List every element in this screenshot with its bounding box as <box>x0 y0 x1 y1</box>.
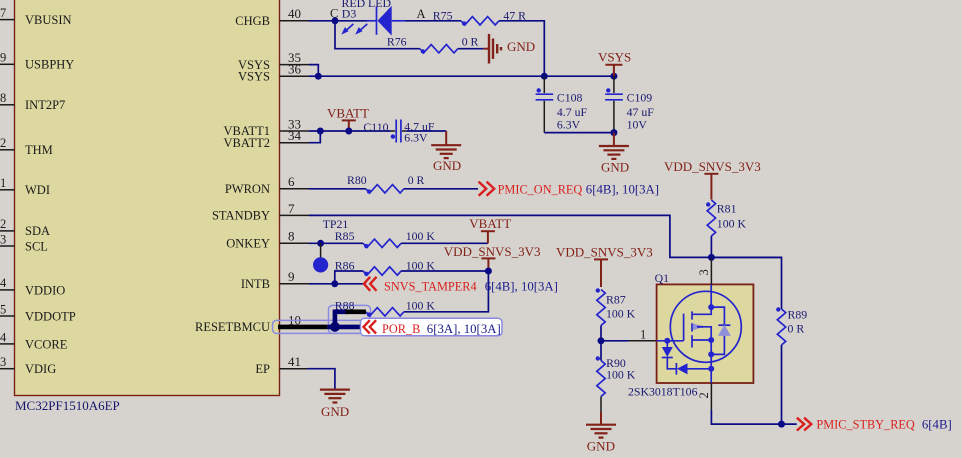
port PMIC_STBY_REQ <box>797 418 952 432</box>
capacitor C108 4.7uF 6.3V <box>536 76 588 132</box>
resistor R86 100K <box>335 258 436 276</box>
svg-text:4: 4 <box>0 331 7 345</box>
svg-text:6.3V: 6.3V <box>557 117 581 131</box>
svg-text:9: 9 <box>288 269 295 284</box>
svg-text:3: 3 <box>697 269 711 275</box>
svg-text:VCORE: VCORE <box>25 338 68 352</box>
svg-text:100 K: 100 K <box>606 368 636 382</box>
Q1 MOSFET symbol <box>657 284 742 382</box>
wire LED anode to R75 <box>405 20 461 22</box>
resistor R90 100K (vertical) <box>596 356 636 396</box>
wire junction to R89 <box>711 257 781 309</box>
port PMIC_ON_REQ <box>479 182 659 197</box>
left pins of IC <box>0 20 15 369</box>
junction C108 top <box>541 73 548 80</box>
junction INTB <box>331 280 338 287</box>
svg-text:4: 4 <box>0 276 7 290</box>
svg-text:VDDIO: VDDIO <box>25 284 65 298</box>
svg-text:R87: R87 <box>606 292 626 306</box>
power port VBATT <box>327 106 369 132</box>
svg-text:PWRON: PWRON <box>225 182 270 196</box>
svg-text:R85: R85 <box>335 229 355 243</box>
wire ONKEY to R85 <box>309 242 363 244</box>
svg-text:7: 7 <box>288 201 295 216</box>
svg-text:GND: GND <box>321 404 349 419</box>
svg-text:MC32PF1510A6EP: MC32PF1510A6EP <box>15 398 120 413</box>
big junction RESETBMCU <box>330 322 340 332</box>
capacitor C110 4.7uF 6.3V <box>363 119 435 144</box>
port SNVS_TAMPER4 <box>364 277 558 294</box>
pin 1 of Q1 <box>629 340 657 342</box>
svg-text:INT2P7: INT2P7 <box>25 98 65 112</box>
resistor R76 0R <box>387 34 479 53</box>
junction VBATT stem <box>345 128 352 135</box>
wire R75 to VSYS rail <box>499 21 544 76</box>
pin 2 of Q1 <box>710 383 712 410</box>
svg-text:INTB: INTB <box>241 277 270 291</box>
test point TP21 <box>313 217 348 273</box>
svg-text:POR_B: POR_B <box>382 322 420 336</box>
svg-text:VDD_SNVS_3V3: VDD_SNVS_3V3 <box>556 245 653 260</box>
wire R80 to port <box>404 188 478 190</box>
IC MC32PF1510A6EP <box>15 0 280 413</box>
resistor R88 100K <box>335 298 436 317</box>
svg-text:2: 2 <box>0 217 6 231</box>
svg-text:RED LED: RED LED <box>342 0 392 10</box>
thick pin 10 (highlighted) <box>278 325 327 330</box>
svg-text:A: A <box>417 7 426 21</box>
port POR_B (highlighted) <box>361 318 503 336</box>
junction gate/R87/R90 <box>598 337 605 344</box>
svg-text:9: 9 <box>0 51 6 65</box>
resistor R80 0R <box>347 173 425 194</box>
svg-text:VBATT2: VBATT2 <box>223 136 270 150</box>
Q1 connection dots <box>664 304 714 372</box>
svg-text:41: 41 <box>288 354 301 369</box>
wire Q1 source to port row <box>711 410 796 424</box>
power port VDD_SNVS_3V3 (left) <box>444 244 541 271</box>
svg-text:6: 6 <box>288 174 295 189</box>
svg-text:VBATT: VBATT <box>327 106 369 121</box>
svg-text:1: 1 <box>640 328 646 342</box>
svg-text:PMIC_STBY_REQ: PMIC_STBY_REQ <box>816 418 915 432</box>
resistor R81 100K (vertical) <box>706 200 746 236</box>
svg-text:6.3V: 6.3V <box>404 131 428 145</box>
left pin numbers (cut off at edge) <box>0 6 7 369</box>
svg-text:VBUSIN: VBUSIN <box>25 13 72 27</box>
svg-text:3: 3 <box>0 233 6 247</box>
power port VBATT at R85 <box>469 216 511 243</box>
ground at EP <box>320 390 350 403</box>
svg-text:0 R: 0 R <box>788 322 805 336</box>
wire CHGB to LED node <box>309 20 368 22</box>
svg-text:SCL: SCL <box>25 240 48 254</box>
wire INTB up branch to R86 <box>335 271 363 284</box>
resistor R89 0R (vertical) <box>776 307 807 345</box>
power port VSYS <box>598 50 631 77</box>
resistor R85 100K <box>335 229 436 248</box>
svg-text:SNVS_TAMPER4: SNVS_TAMPER4 <box>384 279 477 293</box>
svg-text:C: C <box>330 7 338 21</box>
junction C109/VSYS top <box>610 73 617 80</box>
svg-text:100 K: 100 K <box>406 229 436 243</box>
svg-text:VDDOTP: VDDOTP <box>25 310 76 324</box>
wire INTB to port <box>309 283 366 285</box>
svg-text:VBATT: VBATT <box>469 216 511 231</box>
ground at VSYS caps <box>599 133 629 159</box>
node C junction <box>332 17 339 24</box>
svg-text:CHGB: CHGB <box>235 14 270 28</box>
svg-text:R76: R76 <box>387 34 407 48</box>
wire node C down to R76 row <box>335 21 420 49</box>
resistor R87 100K (vertical) <box>596 288 636 325</box>
capacitor C109 47uF 10V <box>605 76 654 132</box>
svg-text:VDD_SNVS_3V3: VDD_SNVS_3V3 <box>664 159 761 174</box>
wire R76 to ground <box>458 48 484 50</box>
wire R89 bottom to port row <box>781 345 783 424</box>
right pin numbers <box>288 6 302 369</box>
wire STANDBY long route <box>309 215 782 257</box>
wire R90 top lead <box>600 341 602 361</box>
svg-text:10V: 10V <box>627 117 648 131</box>
wire EP to ground <box>307 369 335 390</box>
wire VDD junction down to R88 row <box>404 271 489 312</box>
ground at C110 <box>431 131 461 158</box>
junction pin33/34 <box>317 128 324 135</box>
wire C108 bottom to C109 bottom <box>544 132 614 134</box>
svg-text:EP: EP <box>255 362 270 376</box>
wire R81 to junction <box>710 236 712 257</box>
svg-text:PMIC_ON_REQ: PMIC_ON_REQ <box>498 182 583 196</box>
svg-text:GND: GND <box>507 39 535 54</box>
svg-text:GND: GND <box>433 158 461 173</box>
svg-text:SDA: SDA <box>25 224 50 238</box>
wire R90 bottom to ground <box>600 397 602 413</box>
svg-text:Q1: Q1 <box>655 271 670 285</box>
wire R87 bottom to gate junction <box>601 326 629 341</box>
svg-text:R89: R89 <box>788 308 808 322</box>
svg-text:100 K: 100 K <box>717 216 747 230</box>
svg-text:R86: R86 <box>335 258 355 272</box>
svg-text:R80: R80 <box>347 173 367 187</box>
svg-text:100 K: 100 K <box>606 306 636 320</box>
highlight halo for POR_B net <box>273 305 371 333</box>
svg-text:6[4B], 10[3A]: 6[4B], 10[3A] <box>586 182 659 196</box>
svg-text:R81: R81 <box>717 202 737 216</box>
svg-text:2SK3018T106: 2SK3018T106 <box>628 385 698 399</box>
svg-text:6[4B]: 6[4B] <box>922 418 952 432</box>
power port VDD_SNVS_3V3 (top right) <box>664 159 761 200</box>
svg-text:USBPHY: USBPHY <box>25 58 74 72</box>
svg-text:5: 5 <box>0 303 6 317</box>
wire PWRON to R80 <box>309 188 366 190</box>
resistor R75 47R <box>433 8 526 26</box>
transistor Q1 body <box>655 271 754 383</box>
diode D3 RED LED <box>341 0 405 36</box>
thick wire RESETBMCU node <box>327 312 361 327</box>
wire R85 to VBATT <box>401 242 488 244</box>
svg-text:3: 3 <box>0 355 6 369</box>
svg-text:VSYS: VSYS <box>598 50 631 65</box>
svg-text:C108: C108 <box>557 91 583 105</box>
svg-text:0 R: 0 R <box>408 173 425 187</box>
junction R86/VDD <box>485 268 492 275</box>
left pin names <box>25 13 76 376</box>
pin 3 of Q1 <box>710 258 712 284</box>
wire C110 to gnd drop <box>407 130 447 132</box>
power ground (rotated) at R76 <box>483 34 501 64</box>
svg-text:C110: C110 <box>363 120 388 134</box>
svg-text:STANDBY: STANDBY <box>212 209 270 223</box>
svg-text:100 K: 100 K <box>406 298 436 312</box>
svg-text:8: 8 <box>288 229 295 244</box>
wire R86 to VDD_SNVS junction <box>401 270 488 272</box>
svg-text:8: 8 <box>0 91 6 105</box>
junction R81/Q1/STANDBY <box>708 254 715 261</box>
svg-text:2: 2 <box>0 136 6 150</box>
svg-text:6[3A], 10[3A]: 6[3A], 10[3A] <box>427 322 501 336</box>
junction R89/port row <box>778 421 785 428</box>
svg-text:RESETBMCU: RESETBMCU <box>195 320 270 334</box>
junction TP21 <box>317 240 324 247</box>
svg-text:1: 1 <box>0 176 6 190</box>
right pin stubs <box>280 21 310 369</box>
svg-text:VDD_SNVS_3V3: VDD_SNVS_3V3 <box>444 244 541 259</box>
svg-text:40: 40 <box>288 6 301 21</box>
svg-text:GND: GND <box>587 439 615 454</box>
svg-text:6[4B], 10[3A]: 6[4B], 10[3A] <box>485 279 558 293</box>
svg-text:2: 2 <box>697 392 711 398</box>
junction C109 bottom <box>610 129 617 136</box>
svg-text:VSYS: VSYS <box>238 70 270 84</box>
VBATT1/2 net wires (pins 33/34) <box>309 130 391 132</box>
svg-text:VDIG: VDIG <box>25 362 56 376</box>
power port VDD_SNVS_3V3 (at R87) <box>556 245 653 288</box>
svg-text:WDI: WDI <box>25 183 50 197</box>
junction pin35/36 <box>315 73 322 80</box>
right pin names <box>195 14 270 376</box>
svg-text:0 R: 0 R <box>462 34 479 48</box>
svg-text:THM: THM <box>25 143 53 157</box>
svg-text:ONKEY: ONKEY <box>226 237 270 251</box>
ground at R90 <box>586 412 616 438</box>
VSYS net wires (pins 35/36) <box>309 65 614 77</box>
svg-text:C109: C109 <box>627 91 653 105</box>
thick pin R88 lead (highlighted) <box>345 309 366 314</box>
svg-text:7: 7 <box>0 6 6 20</box>
svg-text:GND: GND <box>601 160 629 175</box>
svg-text:R75: R75 <box>433 8 453 22</box>
